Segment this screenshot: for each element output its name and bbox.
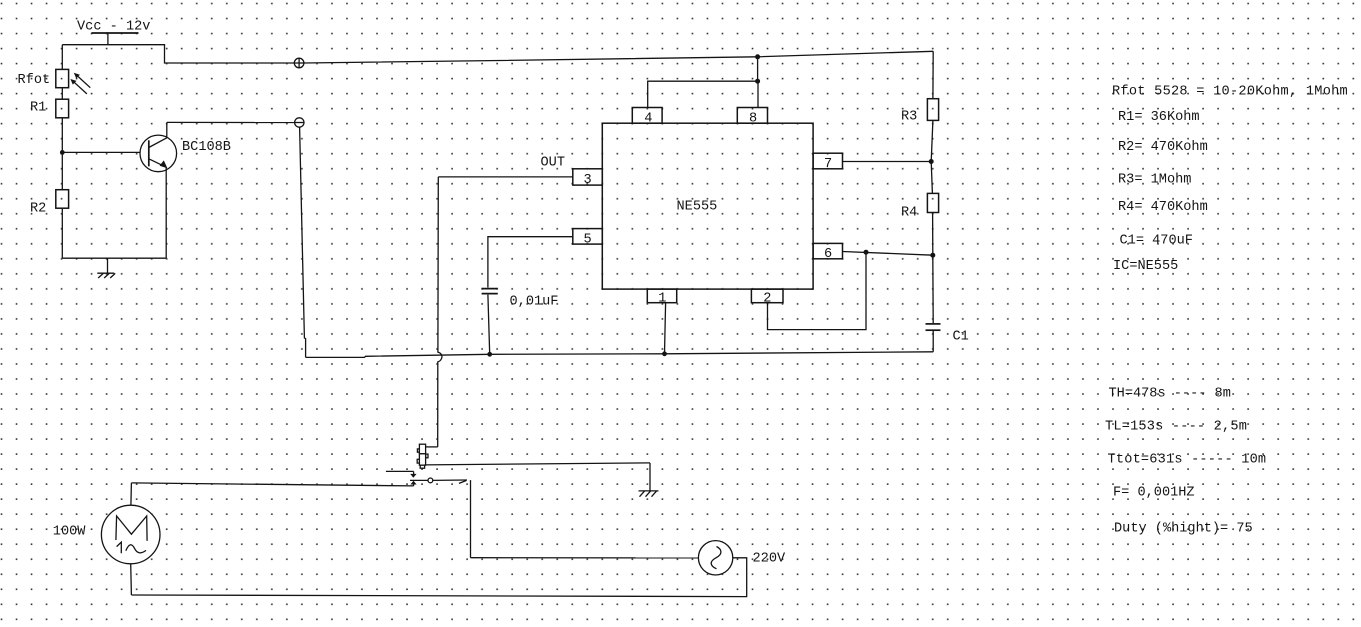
svg-text:5: 5	[584, 233, 592, 248]
svg-text:4: 4	[644, 112, 652, 127]
svg-text:C1: C1	[953, 330, 969, 345]
svg-text:F= 0,001HZ: F= 0,001HZ	[1113, 485, 1195, 500]
svg-text:3: 3	[584, 173, 592, 188]
svg-text:R4: R4	[901, 206, 917, 221]
svg-text:7: 7	[824, 157, 832, 172]
svg-text:NE555: NE555	[677, 200, 718, 215]
svg-text:220V: 220V	[753, 552, 786, 567]
svg-text:BC108B: BC108B	[182, 140, 231, 155]
svg-text:0,01uF: 0,01uF	[510, 295, 559, 310]
svg-text:Rfot: Rfot	[18, 73, 51, 88]
svg-text:OUT: OUT	[541, 156, 565, 171]
svg-text:R2: R2	[30, 202, 46, 217]
svg-text:R2= 470Kohm: R2= 470Kohm	[1118, 140, 1208, 155]
svg-text:6: 6	[824, 247, 832, 262]
svg-text:Ttot=631s ----- 10m: Ttot=631s ----- 10m	[1108, 452, 1267, 467]
svg-text:R1= 36Kohm: R1= 36Kohm	[1118, 110, 1200, 125]
svg-text:C1= 470uF: C1= 470uF	[1120, 233, 1193, 248]
svg-text:R3= 1Mohm: R3= 1Mohm	[1118, 173, 1191, 188]
svg-text:Duty (%hight)= 75: Duty (%hight)= 75	[1114, 521, 1253, 536]
svg-text:100W: 100W	[53, 525, 86, 540]
svg-text:Rfot 5528 = 10-20Kohm, 1Mohm: Rfot 5528 = 10-20Kohm, 1Mohm	[1112, 85, 1348, 100]
svg-text:IC=NE555: IC=NE555	[1113, 259, 1178, 274]
svg-text:TL=153s ---- 2,5m: TL=153s ---- 2,5m	[1105, 419, 1247, 434]
svg-text:TH=478s ---- 8m: TH=478s ---- 8m	[1109, 386, 1231, 401]
svg-text:8: 8	[749, 112, 757, 127]
svg-text:R3: R3	[901, 110, 917, 125]
svg-text:R1: R1	[30, 101, 46, 116]
svg-text:R4= 470Kohm: R4= 470Kohm	[1118, 200, 1208, 215]
